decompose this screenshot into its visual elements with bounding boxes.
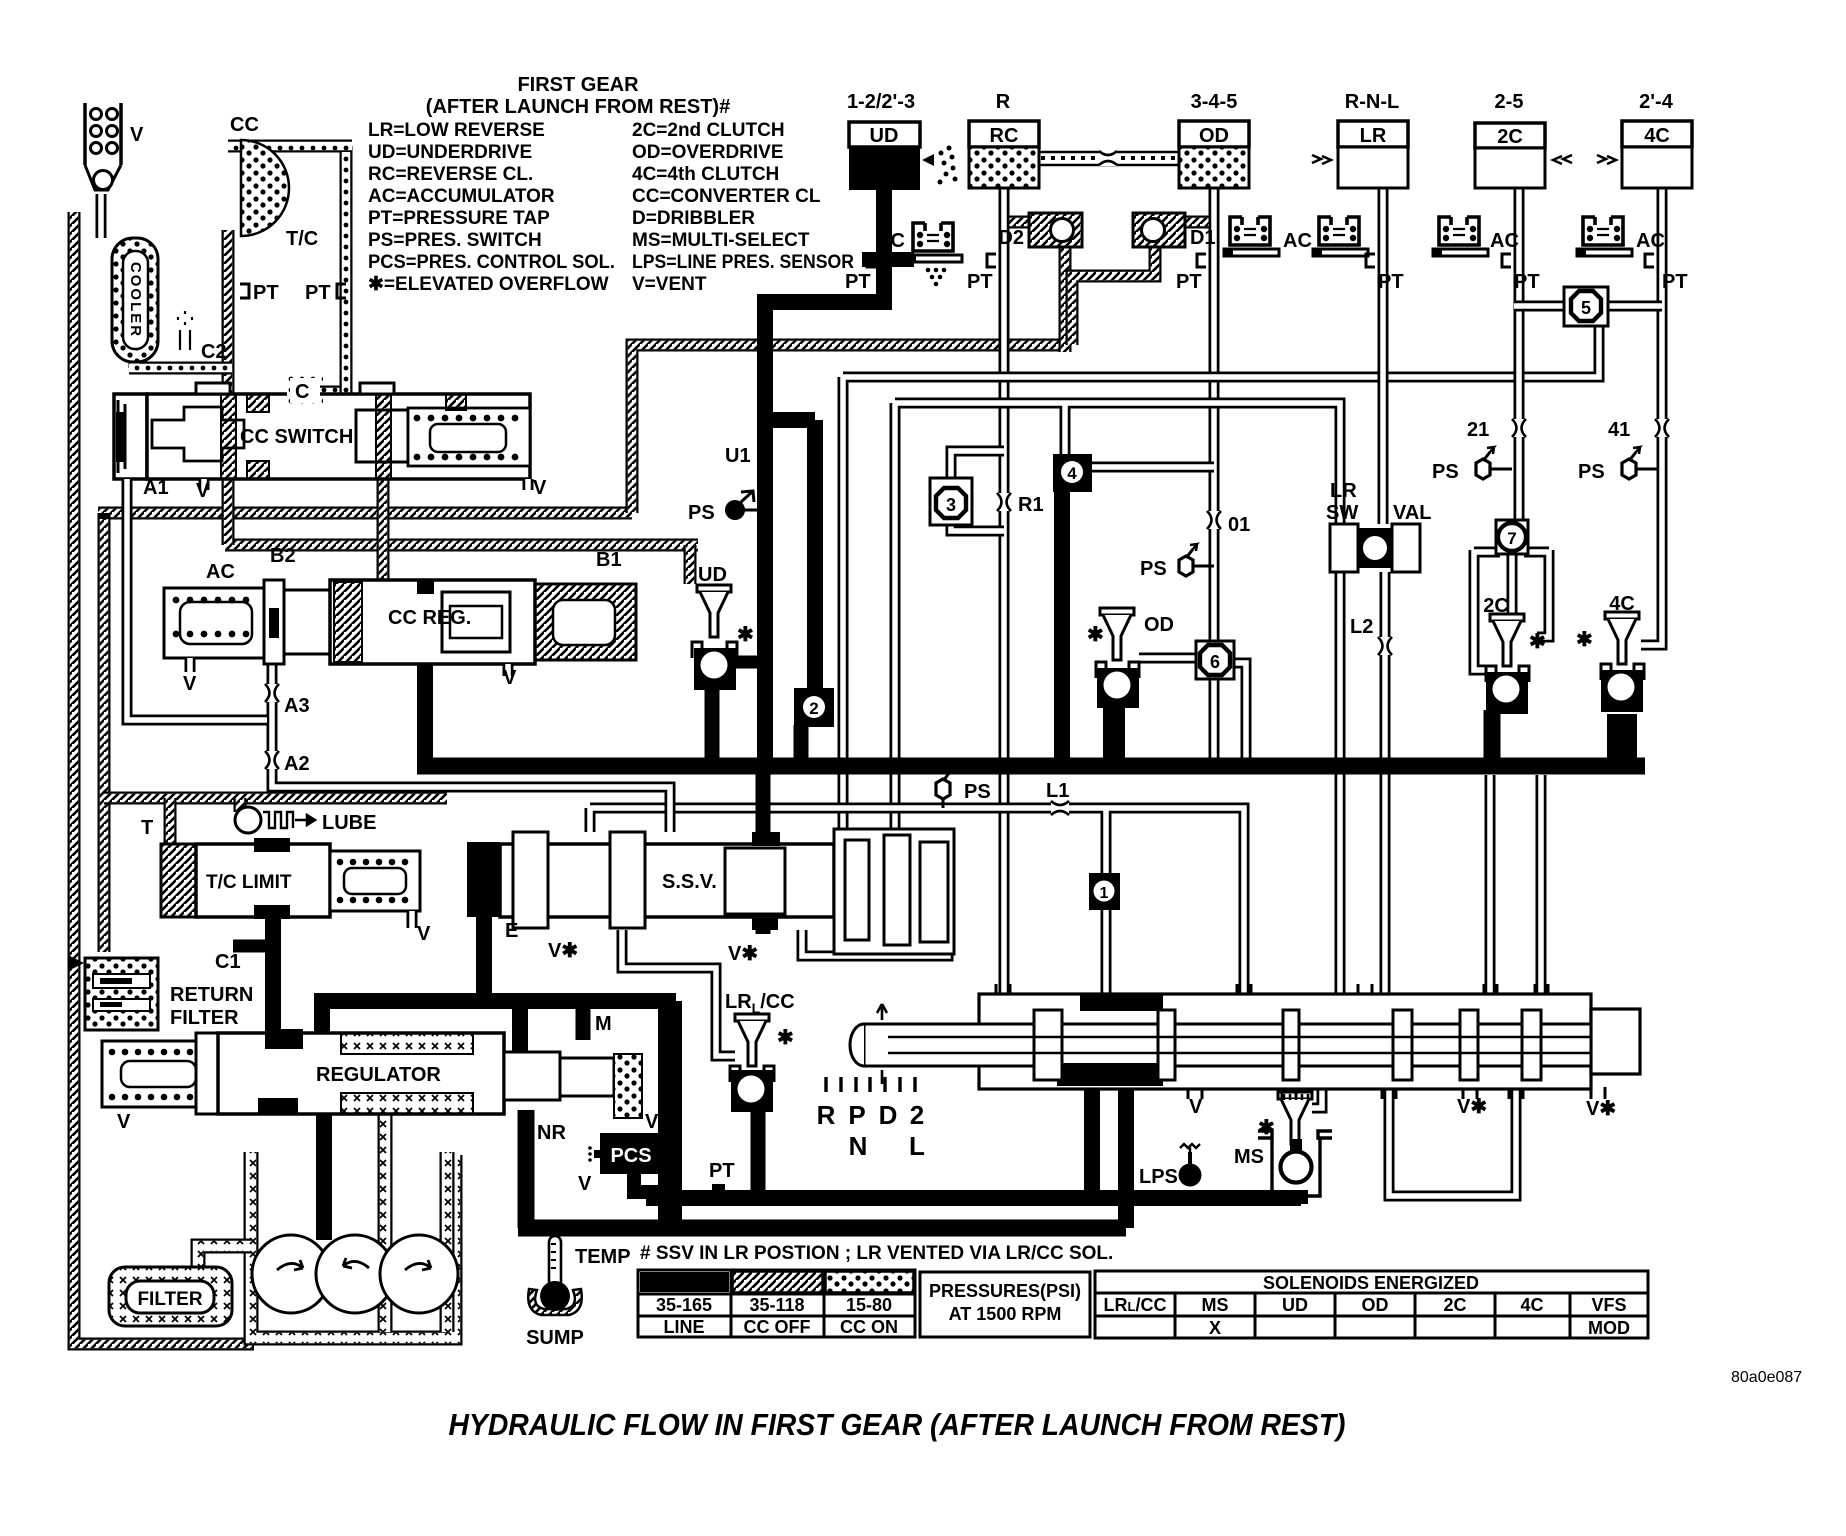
svg-text:4C: 4C [1520,1295,1543,1315]
wire: lube hatched line y798 [104,792,447,805]
wire: 5 arms [1514,301,1662,312]
gear ticks and letters [826,1077,915,1092]
svg-text:CC ON: CC ON [840,1317,898,1337]
clutch OD [1179,121,1249,147]
wire: E drain to sump header [314,912,676,1052]
svg-text:5: 5 [1581,298,1591,318]
svg-text:UD: UD [1282,1295,1308,1315]
dribbler bridge RC-OD [1039,152,1179,165]
svg-text:FILTER: FILTER [170,1007,239,1029]
right section [834,829,954,954]
svg-text:4: 4 [1067,464,1077,483]
svg-text:PT: PT [845,271,871,293]
svg-text:V: V [183,673,197,695]
svg-text:LRL/CC: LRL/CC [725,991,795,1016]
svg-text:T/C: T/C [286,228,318,250]
svg-text:X: X [1209,1318,1221,1338]
wire: PCS drain [634,1170,672,1192]
svg-text:B2: B2 [270,545,296,567]
svg-text:V: V [196,480,210,502]
svg-text:NR: NR [537,1122,566,1144]
wire: C1 link [233,940,273,953]
svg-text:TEMP: TEMP [575,1246,631,1268]
accumulator AC near UD [907,223,962,262]
wire: D2-RC link [1004,216,1029,229]
svg-text:RC: RC [990,125,1019,147]
wire: SSV drain to LR/CC [622,930,735,1056]
svg-text:CC SWITCH: CC SWITCH [240,426,353,448]
clutch 2C [1475,123,1545,148]
wire: RC main line [999,188,1010,996]
accumulator AC (2C column) [1433,217,1488,256]
svg-text:A1: A1 [143,477,169,499]
wire: left tall hatched pipe [74,212,254,1344]
accumulator AC (4C column) [1577,217,1632,256]
svg-text:PS: PS [1578,461,1605,483]
wire: cooler outlet dotted [129,358,232,368]
wire: OD funnel to 6 [1139,653,1197,664]
svg-text:OD: OD [1362,1295,1389,1315]
svg-text:C2: C2 [201,341,227,363]
svg-text:C1: C1 [215,951,241,973]
svg-text:V: V [578,1173,592,1195]
T/C dotted torus [241,140,289,236]
svg-text:AC: AC [876,230,905,252]
svg-text:MS=MULTI-SELECT: MS=MULTI-SELECT [632,230,810,251]
svg-text:PT: PT [1176,271,1202,293]
svg-text:PT: PT [1662,271,1688,293]
wire: stubs to manual valve [1490,775,1541,994]
wire: L1 line y808 [590,808,1244,994]
wire: solenoid header bar [646,1190,1301,1206]
svg-text:LR=LOW REVERSE: LR=LOW REVERSE [368,120,545,141]
wire: CC hatched vertical [222,230,235,545]
svg-text:RETURN: RETURN [170,984,253,1006]
svg-text:PT: PT [253,282,279,304]
svg-text:T/C LIMIT: T/C LIMIT [206,872,292,893]
wire: LR main [1378,188,1389,524]
svg-text:PCS: PCS [610,1145,651,1167]
wire: T/C LIMIT drain [265,917,281,1033]
svg-text:AC: AC [206,561,235,583]
svg-text:35-165: 35-165 [656,1295,712,1315]
svg-text:B1: B1 [596,549,622,571]
svg-text:FIRST GEAR: FIRST GEAR [517,74,639,96]
wire: D1 hatched Z [1072,247,1155,345]
clutch UD [849,122,920,147]
svg-text:V: V [130,124,144,146]
svg-text:3: 3 [946,495,956,515]
svg-text:D2: D2 [998,227,1024,249]
svg-text:L1: L1 [1046,780,1069,802]
wire: A2/A3 line [272,664,670,832]
PT tap ticks on lines [867,254,1654,267]
wire: A1 line [127,479,267,720]
svg-text:U1: U1 [725,445,751,467]
wire: 4C line [1641,188,1662,645]
junction 5 [1564,287,1608,326]
svg-text:LR: LR [1330,480,1357,502]
wire: valve V* loop [1389,1077,1516,1196]
svg-text:LRL/CC: LRL/CC [1104,1295,1167,1315]
svg-text:PT: PT [1378,271,1404,293]
svg-text:PT: PT [1514,271,1540,293]
wire: LR SW legs [1340,572,1385,994]
svg-text:D: D [879,1100,898,1130]
valve port notches top [996,984,1548,994]
wire: CC REG riser [417,655,433,766]
svg-text:R-N-L: R-N-L [1345,91,1399,113]
svg-text:PS: PS [1432,461,1459,483]
svg-text:✱: ✱ [777,1027,794,1049]
clutch RC [969,121,1039,147]
svg-text:2: 2 [809,699,818,718]
svg-text:P: P [848,1100,865,1130]
CC REG body [284,590,330,654]
svg-text:VF: VF [645,1111,671,1133]
svg-text:SOLENOIDS ENERGIZED: SOLENOIDS ENERGIZED [1263,1273,1479,1293]
svg-text:PS: PS [1140,558,1167,580]
svg-text:R1: R1 [1018,494,1044,516]
svg-text:AC=ACCUMULATOR: AC=ACCUMULATOR [368,186,555,207]
ports below [127,479,528,490]
wire: 6 to main bar [1214,663,1246,765]
svg-text:35-118: 35-118 [749,1295,804,1315]
wire: B2 drop x383 [377,469,390,584]
svg-text:LINE: LINE [663,1317,704,1337]
wire: 2C loop [1474,550,1549,670]
wire: vent to cooler [96,194,107,238]
wire: LR/CC output [751,1108,766,1198]
svg-text:LPS: LPS [1139,1166,1178,1188]
svg-text:V✱: V✱ [728,943,758,965]
svg-text:OD: OD [1144,614,1174,636]
svg-text:E: E [505,920,518,942]
svg-text:✱=ELEVATED OVERFLOW: ✱=ELEVATED OVERFLOW [368,274,609,295]
wire: y377 header [843,326,1599,829]
spring w/ dots [408,408,530,466]
wire: D1-OD link [1185,216,1214,229]
wire: M feed [576,1001,591,1040]
svg-text:2'-4: 2'-4 [1639,91,1674,113]
wire: regulator pump feed [316,1114,332,1240]
cooler [112,238,158,362]
svg-text:41: 41 [1608,419,1630,441]
wire: B1 drop into CC REG [684,545,697,584]
C dotted box [287,375,320,406]
CC REG piston [264,580,284,664]
svg-text:AC: AC [1283,230,1312,252]
wire: OD 01 line [1209,188,1220,645]
junction 4 [1053,454,1092,492]
svg-text:UD=UNDERDRIVE: UD=UNDERDRIVE [368,142,532,163]
svg-text:2: 2 [910,1100,924,1130]
svg-text:PCS=PRES. CONTROL SOL.: PCS=PRES. CONTROL SOL. [368,252,615,273]
wire: SSV right drain loop [802,930,948,956]
PS solid at U1 [725,500,745,520]
dribbler D1 [1133,213,1185,247]
svg-text:MOD: MOD [1588,1318,1630,1338]
svg-text:(AFTER LAUNCH FROM REST)#: (AFTER LAUNCH FROM REST)# [426,96,730,118]
svg-text:VAL: VAL [1393,502,1432,524]
wire: 3 bypass loop [951,451,1004,531]
svg-text:L2: L2 [1350,616,1373,638]
svg-text:01: 01 [1228,514,1250,536]
sump temp [549,1236,561,1288]
junction 6 [1196,641,1234,679]
svg-text:PT: PT [709,1160,735,1182]
svg-text:CC REG.: CC REG. [388,607,471,629]
svg-text:R: R [817,1100,836,1130]
svg-text:D=DRIBBLER: D=DRIBBLER [632,208,755,229]
wire: D2 hatched drop [1059,247,1072,352]
wire: hatched left drop x104 [98,513,111,952]
wire: MS loop [1312,1076,1322,1108]
dribbler D2 [1029,213,1082,247]
svg-text:PT=PRESSURE TAP: PT=PRESSURE TAP [368,208,550,229]
svg-text:3-4-5: 3-4-5 [1191,91,1238,113]
svg-text:V✱: V✱ [1457,1096,1487,1118]
svg-text:SW: SW [1326,502,1358,524]
svg-text:V: V [533,477,547,499]
svg-text:V: V [417,923,431,945]
svg-text:PS: PS [688,502,715,524]
svg-text:21: 21 [1467,419,1489,441]
wire: UD supply main [765,186,892,765]
svg-text:D1: D1 [1190,227,1216,249]
svg-text:CC=CONVERTER CL: CC=CONVERTER CL [632,186,821,207]
svg-text:V=VENT: V=VENT [632,274,707,295]
junction 7 [1496,520,1528,554]
wire: 2 box drop [794,725,809,765]
accumulator AC (OD column) [1224,217,1279,256]
svg-text:UD: UD [698,564,727,586]
wire: pump loop [251,1152,455,1338]
wire: UD overflow drop [705,688,720,765]
svg-text:PS: PS [964,781,991,803]
svg-text:PT: PT [305,282,331,304]
legend title [368,74,854,295]
svg-text:V: V [117,1111,131,1133]
svg-text:T: T [141,817,153,839]
svg-text:N: N [849,1131,868,1161]
UD spray vent [922,146,958,185]
wire: 2C line [1514,188,1525,524]
svg-text:A2: A2 [284,753,310,775]
wire: hatched line y513 [98,507,632,520]
svg-text:2C=2nd CLUTCH: 2C=2nd CLUTCH [632,120,785,141]
wire: 4C overflow drop [1607,714,1637,766]
svg-text:80a0e087: 80a0e087 [1731,1369,1802,1386]
svg-text:HYDRAULIC FLOW IN FIRST GEAR (: HYDRAULIC FLOW IN FIRST GEAR (AFTER LAUN… [449,1407,1346,1442]
wire: SSV feed through [756,766,771,934]
T/C chamber walls [228,146,352,398]
svg-text:PS=PRES. SWITCH: PS=PRES. SWITCH [368,230,542,251]
svg-text:# SSV IN LR POSTION ; LR VENTE: # SSV IN LR POSTION ; LR VENTED VIA LR/C… [640,1243,1113,1264]
svg-text:PRESSURES(PSI): PRESSURES(PSI) [929,1281,1081,1301]
svg-text:2-5: 2-5 [1495,91,1524,113]
wire: filter link [198,1246,251,1268]
wire: manual valve drains [1092,1084,1126,1228]
junction 2 [794,688,834,727]
svg-text:1-2/2'-3: 1-2/2'-3 [847,91,915,113]
svg-text:2C: 2C [1497,126,1523,148]
vent stack top-left [85,103,121,165]
svg-text:PT: PT [967,271,993,293]
svg-text:LR: LR [1360,125,1387,147]
svg-text:4C: 4C [1644,125,1670,147]
svg-text:OD: OD [1199,125,1229,147]
svg-text:7: 7 [1507,529,1516,548]
valve port notches bottom [1188,1087,1605,1099]
svg-text:AC: AC [1636,230,1665,252]
svg-text:15-80: 15-80 [846,1295,892,1315]
wire: B2-B1 hatched line y545 [225,539,698,552]
svg-text:MS: MS [1234,1146,1264,1168]
svg-text:6: 6 [1210,652,1220,672]
svg-text:RC=REVERSE CL.: RC=REVERSE CL. [368,164,533,185]
junction 1 [1089,873,1120,910]
accumulator AC (LR column) [1313,217,1368,256]
svg-text:REGULATOR: REGULATOR [316,1064,441,1086]
svg-text:A3: A3 [284,695,310,717]
clutch 4C [1622,121,1692,147]
svg-text:LUBE: LUBE [322,812,376,834]
svg-text:OD=OVERDRIVE: OD=OVERDRIVE [632,142,784,163]
wire: UD overflow to line stub [733,656,765,669]
wire: hatched y345 + riser x632 [632,345,1065,513]
svg-text:VFS: VFS [1591,1295,1626,1315]
svg-text:AC: AC [1490,230,1519,252]
spool rod lines [888,1037,1591,1053]
hatched crossings [221,394,236,479]
wire: C box dotted link [318,392,352,404]
clutch LR [1338,121,1408,147]
wire: OD overflow drop [1103,706,1125,766]
svg-text:AT 1500 RPM: AT 1500 RPM [949,1304,1062,1324]
svg-text:MS: MS [1202,1295,1229,1315]
svg-text:✱: ✱ [1529,631,1546,653]
svg-text:✱: ✱ [1258,1117,1275,1139]
wire: lube T drop [170,798,240,844]
svg-text:✱: ✱ [737,624,754,646]
wire: 4 box drop [1054,490,1070,758]
wire: U1 tee and 2-branch [765,420,815,690]
svg-text:2C: 2C [1443,1295,1466,1315]
wire: NR drain bar [518,1110,1126,1228]
svg-text:R: R [996,91,1011,113]
svg-text:V✱: V✱ [548,940,578,962]
svg-text:FILTER: FILTER [137,1289,202,1310]
junction 3 [930,478,972,525]
wire: main pressure bar [417,758,1645,775]
svg-text:LPS=LINE PRES. SENSOR: LPS=LINE PRES. SENSOR [632,252,854,273]
svg-text:CC: CC [230,114,259,136]
svg-text:UD: UD [870,125,899,147]
return filter [68,955,84,971]
svg-text:S.S.V.: S.S.V. [662,871,717,893]
svg-text:4C=4th CLUTCH: 4C=4th CLUTCH [632,164,779,185]
wire: y403 header [895,403,1340,829]
C2 dribbler [178,311,192,350]
svg-text:COOLER: COOLER [127,262,144,338]
svg-text:V: V [1189,1096,1203,1118]
wire: 4 to OD line [1092,462,1214,473]
svg-text:1: 1 [1100,885,1109,902]
svg-text:V: V [503,667,517,689]
svg-text:SUMP: SUMP [526,1327,584,1349]
filter [109,1267,232,1326]
svg-text:C: C [295,381,309,403]
svg-text:✱: ✱ [1576,629,1593,651]
svg-text:M: M [595,1013,612,1035]
wire: 2C overflow drop [1484,710,1501,766]
svg-text:L: L [909,1131,925,1161]
svg-text:✱: ✱ [1087,624,1104,646]
svg-text:CC OFF: CC OFF [744,1317,811,1337]
wire: pump feeds from regulator [385,1114,447,1332]
svg-text:V✱: V✱ [1586,1098,1616,1120]
